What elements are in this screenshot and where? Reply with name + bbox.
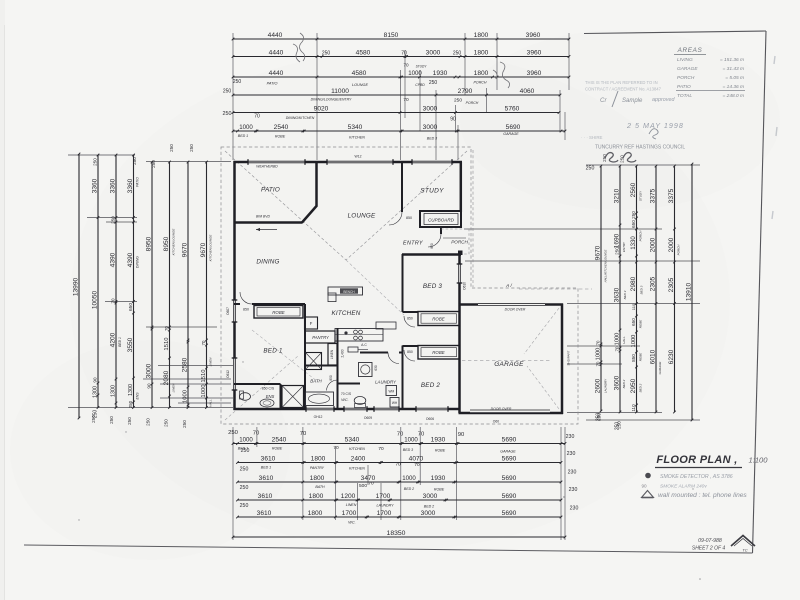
laundry top wall bbox=[360, 352, 402, 354]
left dimension col 7 (9670 2580 1000) bbox=[182, 161, 190, 409]
patio bottom wall bbox=[234, 221, 303, 224]
kitchen return bench bbox=[376, 322, 396, 329]
svg-text:3360: 3360 bbox=[92, 178, 99, 193]
signature squiggle bbox=[649, 129, 658, 139]
bath tub bbox=[306, 392, 334, 406]
hall wall x337 bbox=[337, 328, 339, 409]
right col 1 sub-labels bbox=[604, 250, 608, 394]
svg-text:wall mounted : tel. phone line: wall mounted : tel. phone lines bbox=[658, 492, 747, 499]
wir shower crossed box bbox=[306, 353, 322, 370]
exterior wall left bbox=[233, 161, 236, 410]
left col 8 sub-labels bbox=[209, 234, 213, 407]
exterior wall top bbox=[234, 161, 463, 164]
svg-text:250: 250 bbox=[322, 51, 331, 57]
left dimension col 13990 overall bbox=[73, 153, 81, 420]
faint right edge marks bbox=[772, 56, 777, 219]
top dimension row 1 (4440 8150 1800 3960) bbox=[232, 32, 571, 40]
bottom row 2 sub-labels bbox=[261, 462, 420, 471]
svg-text:1800: 1800 bbox=[474, 50, 489, 57]
window bed2 bottom bbox=[416, 408, 448, 410]
window bed3 right bbox=[459, 264, 461, 283]
right col 5 sub-label PORCH bbox=[677, 244, 681, 256]
exterior wall right (bed3+bed2) bbox=[458, 255, 461, 414]
bottom right 230 labels bbox=[566, 434, 579, 512]
window study top bbox=[412, 161, 452, 163]
garage roof hip dashed top-right bbox=[524, 308, 559, 354]
svg-text:1800: 1800 bbox=[474, 32, 489, 39]
left dimension col 5 (8950 3000) bbox=[146, 161, 154, 409]
top row 5 sub-labels bbox=[223, 111, 456, 123]
bottom dimension row 1 (1000 2540 5340 1000 1930 5690) bbox=[232, 437, 567, 445]
exterior wall bottom bbox=[234, 408, 461, 411]
scanner left edge shading bbox=[0, 0, 5, 600]
top row 4 sub-labels bbox=[223, 89, 479, 106]
garage door opening bottom bbox=[470, 410, 550, 413]
bed3 door arc bbox=[404, 316, 415, 327]
bed2 robe box bbox=[418, 346, 460, 360]
left dimension col 8 (9670 1510 1000) bbox=[200, 161, 208, 409]
bed3 top wall bbox=[402, 253, 461, 256]
window lounge top bbox=[327, 161, 393, 163]
bottom dimension extension lines bbox=[233, 427, 565, 540]
window codes left bbox=[226, 307, 230, 378]
study left wall bbox=[401, 162, 403, 212]
window bath bottom bbox=[306, 408, 334, 410]
areas table rows bbox=[676, 57, 745, 99]
ens wall right bbox=[280, 384, 282, 409]
svg-text:SHEET 2 OF 4: SHEET 2 OF 4 bbox=[692, 546, 725, 552]
legend smoke detector dot bbox=[645, 473, 651, 479]
roof eaves dashed outline bbox=[221, 147, 578, 424]
bottom overall dimension 18350 bbox=[232, 530, 567, 538]
roof valley dashed line through kitchen bbox=[346, 260, 404, 315]
left dimension extension lines bbox=[68, 155, 233, 408]
sheet border bottom / paper fold edge bbox=[24, 545, 753, 553]
garage center dashed line bbox=[462, 360, 552, 362]
bed3 left wall bbox=[402, 254, 404, 312]
bath door arc bbox=[327, 380, 338, 391]
ens wall top bbox=[234, 383, 281, 385]
sheet border top-right bbox=[584, 31, 766, 34]
bed2 door arc bbox=[404, 350, 415, 361]
window wc bottom bbox=[344, 408, 367, 410]
pantry walls bbox=[305, 331, 335, 343]
wc toilet bbox=[354, 397, 366, 405]
bed3 robe wall bbox=[403, 311, 419, 313]
garage top wall bbox=[459, 303, 564, 306]
bottom row 1 sub-labels bbox=[238, 445, 516, 454]
cupboard walls bbox=[420, 211, 461, 227]
water heater box bbox=[390, 398, 399, 408]
garage bottom wall bbox=[459, 412, 564, 415]
fridge box F bbox=[305, 317, 318, 329]
svg-text:4440: 4440 bbox=[269, 50, 284, 57]
garage door opening top bbox=[478, 303, 545, 306]
bed3 robe box bbox=[418, 312, 460, 326]
door arc bed1 bbox=[240, 292, 252, 304]
laundry tub bbox=[359, 363, 373, 377]
top dimension extension lines bbox=[233, 33, 569, 160]
kitchen bench row bbox=[335, 329, 383, 342]
right dimension col 1 (9670 1000 2600) bbox=[595, 165, 603, 421]
bed2 left wall bbox=[402, 346, 404, 410]
right col 3 sub-labels bbox=[639, 190, 644, 392]
svg-text:09-07-988: 09-07-988 bbox=[698, 538, 722, 544]
entry door arc bbox=[428, 234, 441, 247]
bottom row 3 sub-labels bbox=[315, 481, 444, 492]
door gap bed1 bbox=[240, 303, 252, 305]
window codes bottom bbox=[314, 415, 435, 421]
svg-text:FLOOR PLAN ,: FLOOR PLAN , bbox=[656, 454, 737, 466]
bottom dimension row 5 (3610 1800 1700 1700 3000 5690) bbox=[236, 510, 562, 518]
right dimension col 2 (3210 1690 250 3630 1000 3600) bbox=[614, 165, 622, 430]
kitchen island bench bbox=[328, 287, 363, 295]
hall ac unit bbox=[348, 347, 358, 352]
study right exterior wall bbox=[460, 162, 463, 212]
revision cloud squiggle left bbox=[293, 33, 305, 62]
right dimension col 5 (3375 2000 2305 6230) bbox=[668, 165, 676, 414]
entry front door wall stub bbox=[440, 227, 442, 234]
porch slab dashed bbox=[441, 229, 469, 254]
top row 6 sub-labels (room names) bbox=[238, 132, 519, 141]
wc wall bbox=[338, 383, 361, 385]
left dimension col 2 (3360 10050 1300) bbox=[92, 154, 100, 418]
smoke detector dot bbox=[344, 331, 347, 334]
bottom small numbers row (250 70 70 70 70 90) bbox=[228, 430, 465, 438]
handwritten initials squiggles bbox=[605, 153, 618, 162]
bottom dimension row 4 (3610 1800 1200 1700 3000 5690) bbox=[236, 493, 562, 501]
window bed1 left bbox=[234, 358, 236, 390]
svg-text:90: 90 bbox=[641, 484, 647, 489]
patio step arrow bbox=[256, 229, 277, 231]
scan haze bbox=[70, 50, 730, 550]
patio right wall + chamfer bbox=[302, 162, 317, 223]
roof hip dashed line top-right bbox=[346, 151, 467, 260]
garage roof hip dashed bottom-right bbox=[527, 366, 559, 409]
svg-text:250: 250 bbox=[93, 158, 98, 166]
right col 2 sub-labels bbox=[622, 241, 627, 388]
bottom dimension row 3 (3610 1800 3470 1000 1930 5690) bbox=[236, 475, 562, 483]
top dimension row 6 (1000 2540 5340 3000 5690) bbox=[232, 124, 567, 132]
right dimension col 6 (13910 overall) bbox=[686, 163, 694, 422]
roof hip dashed bed1 bbox=[252, 330, 318, 382]
robe bed1 bbox=[254, 306, 303, 319]
window laundry bottom bbox=[374, 408, 399, 410]
bottom row 4 sub-labels bbox=[346, 503, 434, 509]
left block top 250 labels bbox=[93, 144, 195, 168]
bottom row 5 sub-label WC bbox=[348, 521, 355, 525]
laundry door gap bbox=[388, 351, 399, 353]
left dimension col 4 (3360 4390 650 3550 1300) bbox=[127, 154, 135, 409]
title underline bbox=[655, 467, 742, 469]
stamp faint text contract bbox=[585, 80, 662, 92]
svg-text:TC: TC bbox=[742, 548, 747, 553]
porch eave dashed vertical bbox=[472, 150, 474, 287]
ens toilet bbox=[240, 393, 251, 401]
top dimension row 5 (9020 3000 5760) bbox=[232, 106, 561, 114]
sheet border right bbox=[753, 31, 767, 553]
right col 4 sub-label GARAGE bbox=[658, 361, 662, 375]
top dimension row 2 (4440 250 4580 70 3000 250 1800 3960) bbox=[232, 50, 571, 58]
svg-text:3960: 3960 bbox=[526, 32, 541, 39]
garage right wall bbox=[561, 304, 564, 415]
right dimension col 4 (3375 2000 2305 6010) bbox=[650, 165, 658, 414]
roof hip dashed line bottom-left bbox=[225, 356, 298, 420]
interior wall bed1 top bbox=[234, 303, 305, 305]
right dimension extension lines bbox=[464, 165, 700, 420]
porch post bbox=[458, 251, 463, 256]
linen closet bbox=[328, 344, 337, 366]
revision cloud squiggle right bbox=[493, 62, 510, 88]
left dimension col 3 (3360 250 4390 4200 1300) bbox=[110, 154, 118, 409]
builder house logo bbox=[731, 536, 755, 547]
left col 6 sub-labels bbox=[172, 228, 176, 393]
top row 3 sub-labels (PATIO LOUNGE CPBD PORCH) bbox=[233, 79, 487, 87]
ens shower crossed box bbox=[282, 386, 304, 408]
left col 4 room sub-labels bbox=[118, 177, 140, 400]
laundry door arc bbox=[388, 353, 399, 364]
roof hip dashed line top-left bbox=[225, 151, 346, 260]
scan specks bbox=[78, 361, 701, 580]
study door arc bbox=[389, 212, 402, 225]
bottom dimension row 2 (3610 1800 2400 4070 5690) bbox=[236, 456, 562, 464]
bath top wall bbox=[305, 365, 337, 367]
window dining left bbox=[234, 300, 236, 322]
porch step lines bbox=[443, 237, 466, 239]
left dimension col 6 (8950 1510 2080) bbox=[163, 161, 171, 409]
svg-text:1:100: 1:100 bbox=[748, 456, 768, 465]
svg-text:SMOKE ALARM 240v: SMOKE ALARM 240v bbox=[660, 484, 707, 490]
top dimension row 4 (11000 2790 4060) bbox=[232, 88, 562, 96]
svg-text:SMOKE DETECTOR , AS 3786: SMOKE DETECTOR , AS 3786 bbox=[660, 474, 733, 480]
interior wall bed1 right bbox=[304, 304, 306, 409]
window patio top bbox=[248, 161, 305, 163]
right dimension col 3 (2560 650 1330 2980 650 1000 850 2950) bbox=[630, 165, 638, 414]
svg-text:4440: 4440 bbox=[268, 32, 283, 39]
svg-text:8150: 8150 bbox=[384, 32, 399, 39]
top dimension row 3 (4440 4580 1000 1930 1800 3960) bbox=[232, 70, 571, 78]
legend triangle symbol bbox=[642, 491, 654, 498]
bottom left 250 labels bbox=[240, 448, 250, 509]
ens basin bbox=[260, 399, 274, 407]
right block top/bottom 250 labels bbox=[586, 154, 625, 429]
washing machine box bbox=[386, 386, 397, 396]
left block bottom 250 labels bbox=[91, 415, 187, 428]
bed2 top wall stub bbox=[403, 345, 419, 347]
cooktop circles bbox=[354, 330, 363, 340]
